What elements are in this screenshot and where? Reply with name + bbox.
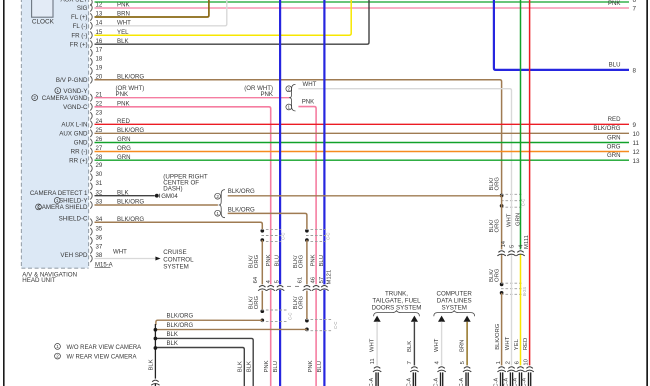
svg-text:B-24: B-24 (522, 286, 527, 296)
wire WHT pin38 to cruise control (95, 258, 156, 260)
svg-text:PNK: PNK (116, 91, 129, 98)
inline connector on column x=306.9 y231-240 (305, 229, 309, 233)
wire BLK ground wire 4 turning down at x=244.3 (155, 348, 244, 386)
brace trunk system (374, 311, 420, 317)
head unit pin 28 (90, 157, 92, 164)
ground bus vertical (154, 324, 156, 379)
option brace pin21 (289, 84, 295, 111)
wire GRN pin11(cut) to right pin 6 (95, 1, 630, 3)
inline connector on column x=306.9 y321-329 (305, 319, 309, 323)
svg-text:2: 2 (33, 95, 36, 100)
svg-text:11: 11 (633, 140, 640, 147)
svg-text:13: 13 (633, 158, 641, 165)
head unit pin 14 (90, 22, 92, 29)
svg-text:AUX L-IN: AUX L-IN (61, 122, 87, 129)
svg-text:ORG: ORG (254, 295, 260, 309)
head unit pin 19 (90, 67, 92, 74)
wire BLK/ORG pin33 to camera shield brace (95, 204, 218, 206)
svg-text:BLK: BLK (167, 332, 178, 338)
svg-text:CONTROL: CONTROL (163, 256, 194, 263)
svg-text:VGND-Y: VGND-Y (63, 88, 87, 95)
svg-text:6: 6 (633, 0, 637, 4)
svg-text:GRN: GRN (607, 152, 621, 159)
svg-text:BLK: BLK (238, 361, 244, 372)
svg-text:RR (-): RR (-) (71, 149, 88, 156)
wire BLK/ORG column x=306.9 to connector row (306, 240, 308, 284)
brace computer data lines (434, 311, 475, 317)
svg-text:W/ REAR VIEW CAMERA: W/ REAR VIEW CAMERA (67, 355, 137, 361)
svg-text:COMPUTER: COMPUTER (436, 290, 472, 297)
svg-text:VGND-C: VGND-C (63, 104, 88, 111)
A/V & navigation head unit box (21, 0, 88, 268)
head unit pin 17 (90, 49, 92, 56)
svg-text:2: 2 (216, 194, 219, 199)
svg-text:PNK: PNK (608, 0, 621, 7)
svg-text:DASH): DASH) (163, 186, 182, 193)
svg-text:14: 14 (501, 240, 507, 247)
head unit pin 11 (cut) (90, 0, 92, 6)
svg-text:1: 1 (288, 105, 291, 110)
camera shield option brace (219, 190, 225, 218)
head unit pin 34 (90, 219, 92, 226)
svg-text:BLK/ORG: BLK/ORG (495, 323, 501, 350)
svg-text:PNK: PNK (311, 254, 317, 266)
wire YEL pin15 up to top edge (95, 0, 352, 35)
wire BRN pin13 up to top edge (95, 0, 209, 17)
left page border (3, 0, 5, 386)
svg-text:SIG: SIG (77, 5, 88, 12)
wire PNK pin12 to right pin 7 (95, 7, 630, 9)
svg-text:ORG: ORG (254, 254, 260, 268)
head unit pin 22 (90, 103, 92, 110)
svg-text:ORG: ORG (495, 177, 501, 191)
wire BLK/ORG to bottom connector pin 1 (501, 293, 503, 366)
svg-text:C-A: C-A (369, 377, 375, 386)
svg-text:WHT: WHT (434, 338, 440, 352)
inline connector dots y284-293 (500, 283, 504, 287)
bottom connector brackets right group (498, 367, 504, 369)
svg-text:BRN: BRN (460, 340, 466, 352)
head unit pin 35 (90, 228, 92, 235)
wire BLK/ORG continues to MT11 connector (501, 196, 503, 250)
svg-text:BLK: BLK (407, 341, 413, 352)
svg-text:WHT: WHT (303, 81, 317, 88)
ground connector bracket (152, 380, 158, 382)
svg-text:17: 17 (96, 47, 103, 54)
svg-text:2: 2 (505, 361, 511, 364)
svg-text:1: 1 (496, 361, 502, 364)
svg-text:10: 10 (633, 131, 641, 138)
wire BLK/ORG pin20 right then down at x=501.6 (95, 80, 502, 196)
arrow wire WHT pin 11 (374, 316, 381, 322)
svg-text:BLK/ORG: BLK/ORG (228, 206, 255, 213)
svg-text:GRN: GRN (516, 213, 522, 226)
svg-text:VEH SPD: VEH SPD (60, 252, 88, 259)
svg-text:CAMERA DETECT 1: CAMERA DETECT 1 (30, 190, 88, 197)
svg-text:BLK/ORG: BLK/ORG (167, 323, 194, 329)
svg-text:WHT: WHT (505, 336, 511, 350)
svg-text:BLU: BLU (275, 255, 281, 266)
head unit pin 38 (90, 255, 92, 262)
wire BLU vertical 1 from top edge (279, 0, 281, 386)
svg-text:ORG: ORG (495, 219, 501, 233)
svg-text:DATA LINES: DATA LINES (437, 297, 472, 304)
svg-text:C-A: C-A (434, 377, 440, 386)
svg-text:FL (+): FL (+) (71, 14, 87, 21)
wire PNK pin21 to option brace (95, 97, 290, 99)
svg-text:C-C: C-C (288, 313, 293, 320)
svg-text:C-A: C-A (513, 377, 519, 386)
svg-text:BLK/ORG: BLK/ORG (593, 125, 620, 132)
head unit pin 30 (90, 174, 92, 181)
wire PNK pin22 turning down at x=270.7 (95, 107, 271, 386)
svg-text:SHIELD-C: SHIELD-C (59, 216, 88, 223)
svg-text:ORG: ORG (299, 254, 305, 268)
svg-text:BLK/ORG: BLK/ORG (167, 314, 194, 320)
wire BLK/ORG ground wire 2 (155, 328, 307, 330)
svg-text:19: 19 (96, 65, 103, 72)
head unit pin 15 (90, 32, 92, 39)
head unit pin 23 (90, 112, 92, 119)
pin 33 label SHIELD-Y / CAMERA SHIELD (54, 198, 60, 204)
wire BLU vertical 2 from top edge (323, 0, 325, 386)
svg-text:BLK: BLK (149, 359, 155, 370)
MT11 connector brackets (498, 251, 504, 253)
svg-text:FR (+): FR (+) (70, 41, 88, 48)
connector brackets group 1 (269, 284, 272, 289)
wire BLK/ORG pin34 turning down at x=262.3 (95, 222, 263, 230)
svg-text:64: 64 (253, 276, 259, 283)
head unit pin 37 (90, 246, 92, 253)
svg-text:BLK/ORG: BLK/ORG (228, 188, 255, 195)
dashes between connector groups (287, 285, 291, 287)
svg-text:11: 11 (370, 358, 376, 364)
wire ORG pin27 to right pin 12 (95, 151, 630, 153)
svg-text:57: 57 (319, 277, 325, 284)
pin 21 label VGND-Y / CAMERA VGND (55, 88, 61, 94)
svg-text:AUX GND: AUX GND (59, 131, 88, 138)
svg-text:W/O REAR VIEW CAMERA: W/O REAR VIEW CAMERA (67, 345, 142, 351)
svg-text:C-C: C-C (281, 233, 286, 240)
svg-text:GRN: GRN (607, 134, 621, 141)
svg-text:WHT: WHT (506, 213, 512, 227)
wire BLK pin16 up to top edge (95, 0, 370, 44)
head unit pin 33 (90, 201, 92, 208)
head unit pin 31 (90, 183, 92, 190)
head unit pin 18 (90, 58, 92, 65)
svg-text:PNK: PNK (266, 254, 272, 266)
wire RED vertical from top edge to bottom pin 10 (529, 0, 531, 365)
svg-text:ORG: ORG (495, 268, 501, 282)
head unit pin 20 (90, 76, 92, 83)
svg-text:61: 61 (298, 277, 304, 284)
svg-text:TRUNK,: TRUNK, (385, 290, 408, 297)
svg-text:RR (+): RR (+) (69, 157, 87, 164)
svg-text:TAILGATE, FUEL: TAILGATE, FUEL (372, 297, 421, 304)
svg-text:36: 36 (96, 235, 103, 242)
head unit pin 27 (90, 148, 92, 155)
svg-text:23: 23 (96, 110, 103, 117)
svg-text:PNK: PNK (260, 91, 273, 98)
cruise arrow (155, 257, 160, 261)
wire BLU from top edge to right pin 8 (494, 0, 629, 70)
svg-text:CRUISE: CRUISE (163, 249, 186, 256)
arrow wire BRN pin 5 (464, 316, 471, 322)
svg-text:SYSTEM: SYSTEM (163, 264, 188, 271)
svg-text:18: 18 (96, 56, 103, 63)
svg-text:ORG: ORG (299, 295, 305, 309)
svg-text:FR (-): FR (-) (71, 32, 87, 39)
svg-text:C-A: C-A (494, 377, 500, 386)
head unit pin 24 (90, 121, 92, 128)
svg-text:RED: RED (608, 116, 621, 123)
svg-text:RED: RED (523, 338, 529, 350)
right page border (646, 0, 648, 386)
svg-text:BLU: BLU (317, 361, 323, 372)
svg-text:CLOCK: CLOCK (32, 18, 55, 25)
svg-text:BLU: BLU (319, 255, 325, 266)
svg-text:BLK: BLK (167, 341, 178, 347)
wire BLK/ORG pin25 to right pin 10 (95, 132, 630, 134)
arrow wire WHT pin 4 (438, 316, 445, 322)
svg-text:7: 7 (633, 6, 637, 13)
head unit pin 29 (90, 165, 92, 172)
wire BLK/ORG ground wire 1 (156, 320, 262, 325)
head unit pin 21 (90, 94, 92, 101)
svg-text:29: 29 (96, 162, 103, 169)
head unit pin 13 (90, 13, 92, 20)
wire YEL below MT11 to bottom pin 6 (520, 254, 522, 366)
svg-text:1: 1 (56, 344, 59, 349)
svg-text:BLU: BLU (609, 62, 621, 69)
wire BLK/ORG column x=262.3 to connector row (261, 240, 263, 284)
svg-text:M111: M111 (524, 235, 530, 249)
svg-text:WHT: WHT (113, 249, 127, 256)
svg-text:12: 12 (633, 149, 641, 156)
svg-text:37: 37 (96, 244, 103, 251)
inline connector on column x=262.3 y311-320 (260, 309, 264, 313)
svg-text:1: 1 (216, 211, 219, 216)
svg-text:ORG: ORG (607, 143, 621, 150)
svg-text:CAMERA SHIELD: CAMERA SHIELD (37, 204, 88, 211)
wire RED pin24 to right pin 9 (95, 123, 630, 125)
svg-text:7: 7 (407, 361, 413, 364)
svg-text:BLU: BLU (273, 361, 279, 372)
head unit pin 12 (90, 4, 92, 11)
svg-text:YEL: YEL (514, 338, 520, 350)
svg-text:PNK: PNK (302, 98, 315, 105)
svg-text:M121: M121 (327, 270, 333, 285)
svg-text:WHT: WHT (370, 338, 376, 352)
svg-text:C-A: C-A (504, 377, 510, 386)
inline connector on column x=262.3 y231-240 (260, 229, 264, 233)
arrow wire BLK pin 7 (411, 316, 418, 322)
GM04 splice symbol (155, 194, 159, 198)
svg-text:2: 2 (56, 354, 59, 359)
svg-text:C-C: C-C (326, 233, 331, 240)
wire BLK pin32 to GM04 (95, 195, 155, 197)
svg-text:C-A: C-A (522, 377, 528, 386)
svg-text:30: 30 (96, 171, 103, 178)
svg-text:35: 35 (96, 225, 103, 232)
svg-text:BLK: BLK (246, 361, 252, 372)
head unit pin 26 (90, 139, 92, 146)
svg-text:8: 8 (633, 68, 637, 75)
WHT column below MT11 to bottom pin 2 (511, 254, 513, 366)
inline connector on BLK/ORG column y196-206 (501, 193, 522, 195)
wire BLK ground wire 3 turning down at x=253.2 (155, 338, 253, 386)
wire GRN pin26 to right pin 11 (95, 142, 630, 144)
svg-text:PNK: PNK (308, 360, 314, 372)
junction dot shield splice (500, 194, 504, 198)
wire WHT pin14 up to top edge (95, 0, 227, 26)
svg-text:GND: GND (74, 140, 88, 147)
svg-text:10: 10 (524, 358, 530, 365)
head unit pin 25 (90, 130, 92, 137)
head unit pin 16 (90, 41, 92, 48)
svg-text:2: 2 (288, 86, 291, 91)
wire GRN vertical from top edge to MT11 pin 4 (520, 0, 522, 249)
svg-text:PNK: PNK (264, 360, 270, 372)
svg-text:9: 9 (633, 122, 637, 129)
svg-text:HEAD UNIT: HEAD UNIT (22, 277, 56, 284)
connector brackets group 2 (315, 284, 318, 289)
svg-text:C-A: C-A (407, 377, 413, 386)
svg-text:1: 1 (57, 88, 60, 93)
svg-text:CAMERA VGND: CAMERA VGND (42, 95, 88, 102)
svg-text:C-A: C-A (459, 377, 465, 386)
svg-text:FL (-): FL (-) (73, 23, 88, 30)
svg-text:AUX SET: AUX SET (61, 0, 88, 4)
svg-text:46: 46 (311, 276, 317, 283)
svg-text:31: 31 (96, 180, 103, 187)
svg-text:B/V P-GND: B/V P-GND (56, 77, 88, 84)
head unit pin 32 (90, 192, 92, 199)
note rear view camera options (55, 344, 61, 350)
wire GRN pin28 to right pin 13 (95, 159, 630, 161)
head unit pin 36 (90, 237, 92, 244)
svg-text:C-C: C-C (333, 322, 338, 329)
svg-text:GM04: GM04 (161, 193, 178, 200)
clock box (32, 0, 53, 17)
